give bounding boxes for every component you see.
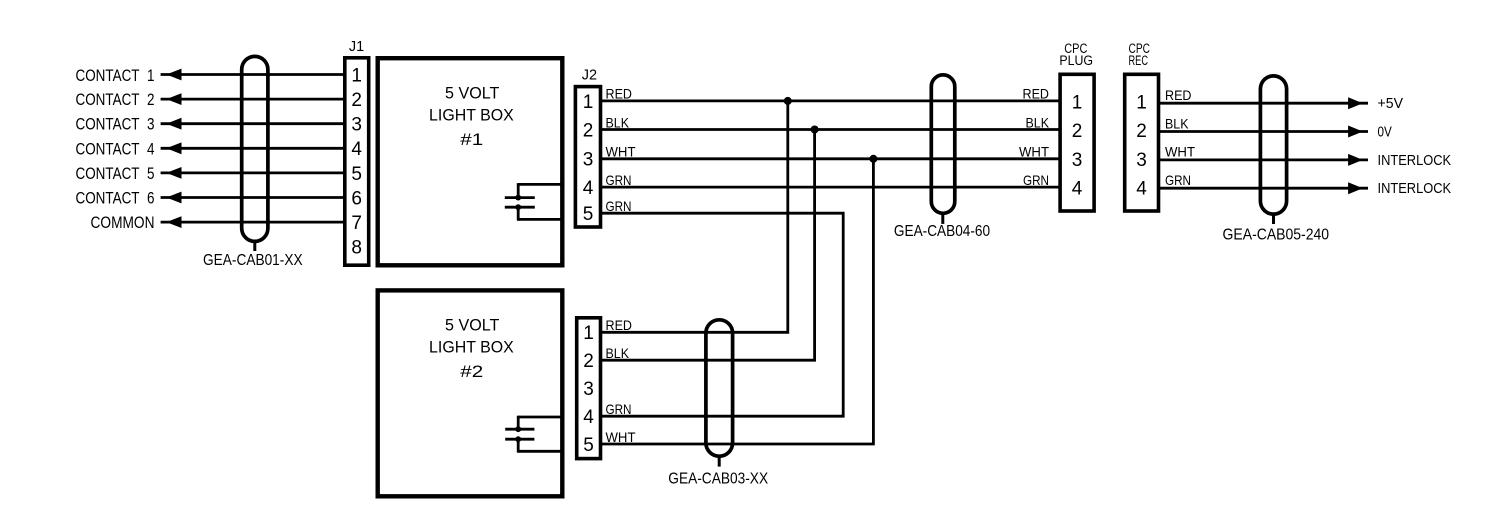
arrowhead COMMON [166, 216, 181, 228]
svg-text:CONTACT 5: CONTACT 5 [76, 164, 155, 183]
svg-text:CONTACT 6: CONTACT 6 [76, 189, 155, 208]
svg-text:0V: 0V [1378, 124, 1393, 140]
svg-text:PLUG: PLUG [1059, 53, 1093, 68]
svg-text:GRN: GRN [1023, 172, 1049, 188]
svg-text:1: 1 [583, 323, 594, 344]
arrowhead 0V [1348, 126, 1363, 138]
wire BLK CPC rec pin 2 to 0V [1159, 130, 1368, 133]
svg-text:RED: RED [1165, 87, 1192, 103]
svg-text:LIGHT BOX: LIGHT BOX [429, 338, 514, 357]
wire RED J2 pin 1 to CPC plug pin 1 [601, 100, 1060, 103]
svg-text:2: 2 [1136, 121, 1147, 142]
svg-text:J1: J1 [349, 39, 364, 55]
wire CONTACT 2 to J1 pin 2 [161, 98, 344, 101]
wire CONTACT 1 to J1 pin 1 [161, 73, 344, 76]
svg-text:GEA-CAB03-XX: GEA-CAB03-XX [668, 471, 768, 488]
svg-text:COMMON: COMMON [91, 213, 155, 232]
svg-text:2: 2 [351, 90, 362, 111]
svg-text:6: 6 [351, 188, 362, 209]
wire WHT CPC rec pin 3 to INTERLOCK [1159, 158, 1368, 161]
wire RED riser junction to light box #2 pin 1 [601, 101, 788, 332]
svg-text:CONTACT 3: CONTACT 3 [76, 115, 155, 134]
wire BLK J2 pin 2 to CPC plug pin 2 [601, 128, 1060, 131]
svg-text:4: 4 [351, 139, 362, 160]
arrowhead CONTACT 2 [166, 93, 181, 105]
svg-text:BLK: BLK [606, 114, 630, 130]
connector J1 body [345, 58, 369, 265]
svg-text:3: 3 [1136, 150, 1147, 171]
svg-text:RED: RED [606, 317, 633, 333]
connector CPC REC body [1125, 74, 1159, 211]
cable shield GEA-CAB04-60 [931, 75, 955, 224]
svg-text:4: 4 [583, 178, 594, 199]
connector light box #2 body [577, 318, 601, 459]
svg-text:+5V: +5V [1378, 96, 1404, 112]
arrowhead CONTACT 4 [166, 142, 181, 154]
svg-text:GEA-CAB05-240: GEA-CAB05-240 [1223, 227, 1330, 244]
5 volt light box #2 [378, 290, 563, 496]
arrowhead CONTACT 1 [166, 69, 181, 81]
arrowhead CONTACT 6 [166, 192, 181, 204]
cable shield GEA-CAB03-XX [706, 320, 733, 467]
svg-text:REC: REC [1129, 53, 1149, 68]
arrowhead INTERLOCK (GRN) [1348, 182, 1363, 194]
wire RED CPC rec pin 1 to +5V [1159, 102, 1368, 105]
svg-text:2: 2 [583, 120, 594, 141]
svg-text:1: 1 [1072, 93, 1083, 114]
svg-text:GEA-CAB04-60: GEA-CAB04-60 [894, 223, 991, 240]
svg-text:BLK: BLK [606, 345, 630, 361]
wire GRN J2 pin 4 to CPC plug pin 4 [601, 186, 1060, 189]
wire WHT J2 pin 3 to CPC plug pin 3 [601, 157, 1060, 160]
svg-text:5: 5 [351, 164, 362, 185]
wire COMMON to J1 pin 7 [161, 221, 344, 224]
svg-text:BLK: BLK [1026, 114, 1050, 130]
svg-text:5: 5 [583, 204, 594, 225]
svg-text:3: 3 [1072, 150, 1083, 171]
svg-text:3: 3 [583, 150, 594, 171]
svg-text:4: 4 [1136, 178, 1147, 199]
svg-text:GRN: GRN [606, 401, 632, 417]
svg-text:#2: #2 [460, 362, 483, 381]
svg-text:BLK: BLK [1165, 115, 1189, 131]
svg-text:WHT: WHT [606, 429, 636, 445]
wire GRN CPC rec pin 4 to INTERLOCK [1159, 187, 1368, 190]
svg-text:GEA-CAB01-XX: GEA-CAB01-XX [203, 252, 303, 269]
cable shield GEA-CAB05-240 [1260, 76, 1286, 224]
svg-text:WHT: WHT [1165, 144, 1195, 160]
junction dot upper contact (box #1) [515, 195, 521, 201]
svg-text:1: 1 [583, 92, 594, 113]
arrowhead CONTACT 5 [166, 167, 181, 179]
svg-text:CONTACT 2: CONTACT 2 [76, 90, 155, 109]
junction dot WHT [869, 155, 877, 163]
svg-text:3: 3 [583, 379, 594, 400]
lamp contact symbol inside box #2 [505, 416, 563, 453]
arrowhead INTERLOCK (WHT) [1348, 154, 1363, 166]
wire CONTACT 5 to J1 pin 5 [161, 171, 344, 174]
wire GRN J2 pin 5 to light box #2 pin 4 [601, 213, 843, 416]
cable shield GEA-CAB01-XX [242, 56, 268, 251]
connector J2 body [575, 87, 600, 227]
svg-text:5 VOLT: 5 VOLT [445, 316, 499, 335]
wire CONTACT 3 to J1 pin 3 [161, 122, 344, 125]
junction dot BLK [811, 126, 819, 134]
svg-text:INTERLOCK: INTERLOCK [1378, 181, 1452, 197]
svg-text:1: 1 [351, 65, 362, 86]
arrowhead CONTACT 3 [166, 118, 181, 130]
junction dot lower contact (box #1) [515, 204, 521, 210]
svg-text:4: 4 [1072, 178, 1083, 199]
svg-text:RED: RED [1023, 86, 1050, 102]
svg-text:WHT: WHT [1019, 144, 1049, 160]
wire CONTACT 6 to J1 pin 6 [161, 196, 344, 199]
svg-text:7: 7 [351, 213, 362, 234]
svg-text:CONTACT 4: CONTACT 4 [76, 139, 155, 158]
svg-text:CONTACT 1: CONTACT 1 [76, 66, 155, 85]
svg-text:INTERLOCK: INTERLOCK [1378, 153, 1452, 169]
svg-text:2: 2 [583, 351, 594, 372]
svg-text:1: 1 [1136, 93, 1147, 114]
svg-text:J2: J2 [582, 68, 597, 84]
wire WHT riser junction to light box #2 pin 5 [601, 159, 873, 444]
svg-text:LIGHT BOX: LIGHT BOX [429, 106, 514, 125]
svg-text:4: 4 [583, 407, 594, 428]
lamp contact symbol inside box #1 [505, 183, 564, 221]
svg-text:5: 5 [583, 435, 594, 456]
wire BLK riser junction to light box #2 pin 2 [601, 130, 815, 361]
junction dot lower contact (box #2) [515, 436, 521, 442]
LEFT-SECTION [76, 66, 155, 232]
svg-text:GRN: GRN [1165, 172, 1191, 188]
svg-text:5 VOLT: 5 VOLT [445, 84, 499, 103]
svg-text:GRN: GRN [606, 198, 632, 214]
arrowhead +5V [1348, 97, 1363, 109]
svg-text:8: 8 [351, 238, 362, 259]
svg-text:#1: #1 [460, 130, 483, 149]
junction dot RED [784, 97, 792, 105]
5 volt light box #1 [378, 58, 563, 265]
connector CPC PLUG body [1060, 74, 1094, 211]
svg-text:3: 3 [351, 115, 362, 136]
wire CONTACT 4 to J1 pin 4 [161, 147, 344, 150]
svg-text:GRN: GRN [606, 172, 632, 188]
junction dot upper contact (box #2) [515, 426, 521, 432]
svg-text:WHT: WHT [606, 144, 636, 160]
svg-text:RED: RED [606, 86, 633, 102]
svg-text:2: 2 [1072, 121, 1083, 142]
